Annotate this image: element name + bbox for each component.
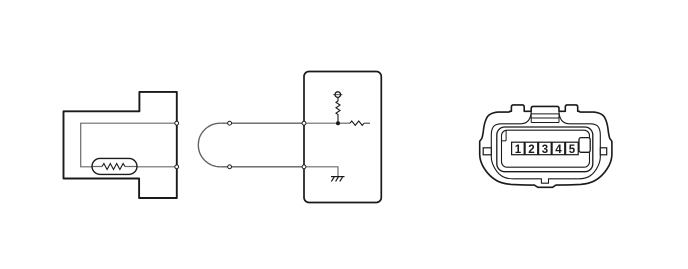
key slot right bbox=[579, 138, 590, 153]
wire top bbox=[221, 122, 305, 124]
ground symbol bbox=[331, 177, 345, 182]
cavity outer bbox=[497, 127, 593, 172]
sensor terminal 2 bbox=[175, 165, 179, 169]
pin numbers 1 2 3 4 5 bbox=[515, 144, 576, 156]
right side key slot bbox=[600, 148, 606, 155]
svg-text:1: 1 bbox=[515, 144, 522, 156]
svg-text:3: 3 bbox=[542, 144, 548, 156]
sensor housing outline bbox=[64, 92, 177, 198]
svg-text:2: 2 bbox=[528, 144, 534, 156]
lead after resistor bbox=[364, 122, 370, 124]
ECU terminal top bbox=[302, 121, 306, 125]
ECU box bbox=[304, 72, 381, 203]
index notch top-left bbox=[502, 131, 506, 141]
svg-text:4: 4 bbox=[555, 144, 562, 156]
connector face: outer silhouette with lock ears and plateau bbox=[480, 105, 612, 187]
harness loop arc bbox=[198, 123, 220, 167]
wire junction to resistor (gray) bbox=[338, 122, 350, 124]
lock channel rungs bbox=[531, 114, 559, 123]
load resistor (horizontal) bbox=[350, 121, 364, 125]
pin cells bbox=[512, 142, 579, 155]
harness connector terminal top bbox=[228, 121, 232, 125]
connector face: inner body line with lock skirts bbox=[491, 112, 600, 183]
left side key slot bbox=[483, 148, 491, 155]
heater resistor zigzag bbox=[102, 164, 125, 170]
cavity inner bbox=[502, 130, 590, 167]
wire bottom bbox=[221, 166, 305, 168]
lock channel verticals bbox=[531, 111, 559, 122]
junction node bbox=[336, 121, 340, 125]
heater element oval bbox=[92, 158, 137, 174]
sensor heater lead right (gray) bbox=[137, 166, 175, 168]
ground wire (gray) bbox=[304, 167, 338, 177]
heater lead inside oval (gray) bbox=[92, 166, 137, 168]
power symbol B+ circle bbox=[335, 92, 341, 98]
ECU terminal bottom bbox=[302, 165, 306, 169]
sensor terminal 1 bbox=[175, 121, 179, 125]
harness connector terminal bottom bbox=[228, 165, 232, 169]
sensor internal wiring loop (gray) bbox=[81, 123, 177, 167]
svg-text:5: 5 bbox=[569, 144, 576, 156]
pull-up resistor (vertical) bbox=[336, 97, 340, 123]
wire inside box to junction (gray) bbox=[304, 122, 338, 124]
power symbol line (gray) bbox=[333, 94, 342, 96]
